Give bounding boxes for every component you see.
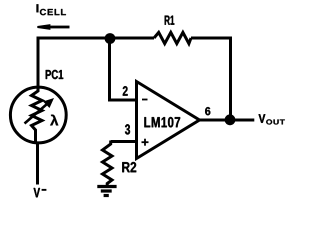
pin 3 label [125, 124, 130, 134]
wire: PC1 bottom to V- [36, 143, 39, 185]
node ICELL label [37, 4, 66, 15]
wire: left vertical from corner down to PC1 top [37, 37, 40, 88]
wire: junction down to pin 2 [108, 38, 111, 100]
current direction arrow ICELL [37, 24, 69, 30]
pin 6 label [205, 107, 210, 115]
wire: R1 right to corner [191, 37, 232, 40]
op-amp plus input mark [142, 139, 149, 146]
lambda symbol [50, 115, 58, 126]
resistor R2 [103, 141, 113, 187]
R1 label [165, 16, 175, 25]
LM107 label [144, 117, 180, 127]
ground [97, 187, 116, 196]
wire: output from op-amp tip to VOUT stub [200, 119, 255, 122]
R2 label [122, 162, 136, 172]
pin 2 label [123, 86, 128, 95]
op-amp U1 LM107 triangle [137, 82, 200, 159]
wire: right vertical down to output node [229, 37, 232, 121]
wire: top horizontal from left corner to R1 [37, 37, 155, 40]
wire: pin 3 horizontal from op-amp [111, 140, 137, 143]
junction node at top (feedback tap) [105, 33, 116, 44]
PC1 label [46, 70, 64, 79]
arrow through photoresistor [25, 98, 55, 124]
photoresistor zigzag inside PC1 [32, 87, 43, 144]
output junction node [225, 114, 236, 125]
V- label [34, 188, 47, 197]
resistor R1 [154, 32, 191, 43]
op-amp minus input mark [142, 99, 148, 101]
VOUT label [259, 114, 285, 124]
wire: pin 2 horizontal into op-amp [108, 99, 137, 102]
photocell PC1 circle [10, 87, 66, 143]
